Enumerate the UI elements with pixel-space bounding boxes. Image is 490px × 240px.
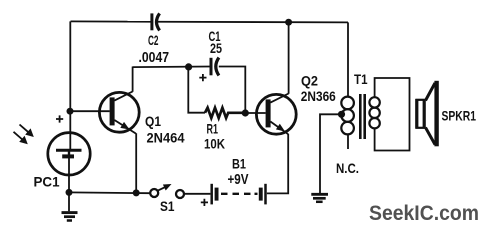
wire PC1 bottom lead [68,156,70,192]
node base junction [67,108,74,115]
wire S1 to B1 [184,193,210,195]
switch S1 [150,184,184,198]
node R1 right junction [242,109,249,116]
capacitor C1 [211,58,219,76]
plus sign PC1 [56,115,63,122]
speaker SPKR1 [417,81,439,147]
wire Q1 base lead [70,110,110,112]
resistor R1 [205,108,245,118]
plus sign B1 [201,199,208,206]
wire Q2 emitter vertical [267,134,288,193]
wire T1 primary NC stub [347,134,349,149]
svg-text:SeekIC.com: SeekIC.com [369,201,479,225]
svg-text:N.C.: N.C. [336,160,359,176]
light arrow 2 [14,132,28,145]
svg-text:.0047: .0047 [139,50,170,66]
wire center tap to ground [320,114,342,193]
svg-text:B1: B1 [232,156,246,172]
svg-text:2N464: 2N464 [147,130,185,146]
node top junction [285,19,292,26]
svg-text:C2: C2 [148,32,159,48]
ground under PC1 [62,192,78,220]
wire left vertical [69,21,71,150]
wire secondary top to speaker [375,78,410,151]
node PC1 bottom junction [66,189,73,196]
node C1 R1 junction [185,63,192,70]
wire Q1 collector vertical [132,67,134,92]
plus sign C1 [199,74,206,81]
svg-text:Q2: Q2 [301,72,318,88]
wire top corner to T1 primary [347,22,349,96]
wire Q1 emitter vertical [135,133,137,193]
node T1 center tap [338,111,345,118]
wire drop to R1 [188,67,205,113]
photocell PC1 [48,133,90,175]
node Q1 emitter junction [133,189,140,196]
svg-text:R1: R1 [207,121,219,137]
wire Q2 collector vertical [288,22,290,94]
transistor Q2 [256,94,296,135]
svg-text:Q1: Q1 [145,113,161,129]
wire Q2 base lead [245,112,265,114]
svg-text:2N366: 2N366 [301,88,336,104]
wire top right horizontal [158,21,349,24]
svg-text:S1: S1 [160,198,175,214]
svg-text:+9V: +9V [228,171,249,188]
svg-text:10K: 10K [204,136,225,152]
svg-text:T1: T1 [354,71,368,87]
battery B1 [212,184,266,205]
svg-text:25: 25 [210,40,222,56]
light arrow 1 [20,125,34,138]
transistor Q1 [99,92,139,134]
wire top left horizontal [71,20,151,22]
capacitor C2 [152,13,160,30]
svg-text:PC1: PC1 [34,174,60,190]
svg-text:SPKR1: SPKR1 [442,107,477,123]
transformer T1 [341,94,379,139]
ground under T1 tap [311,194,328,202]
wire C1 right to corner [219,67,246,114]
wire collector horizontal to C1 [133,66,211,69]
wire bottom from PC1 to S1 [69,191,150,194]
